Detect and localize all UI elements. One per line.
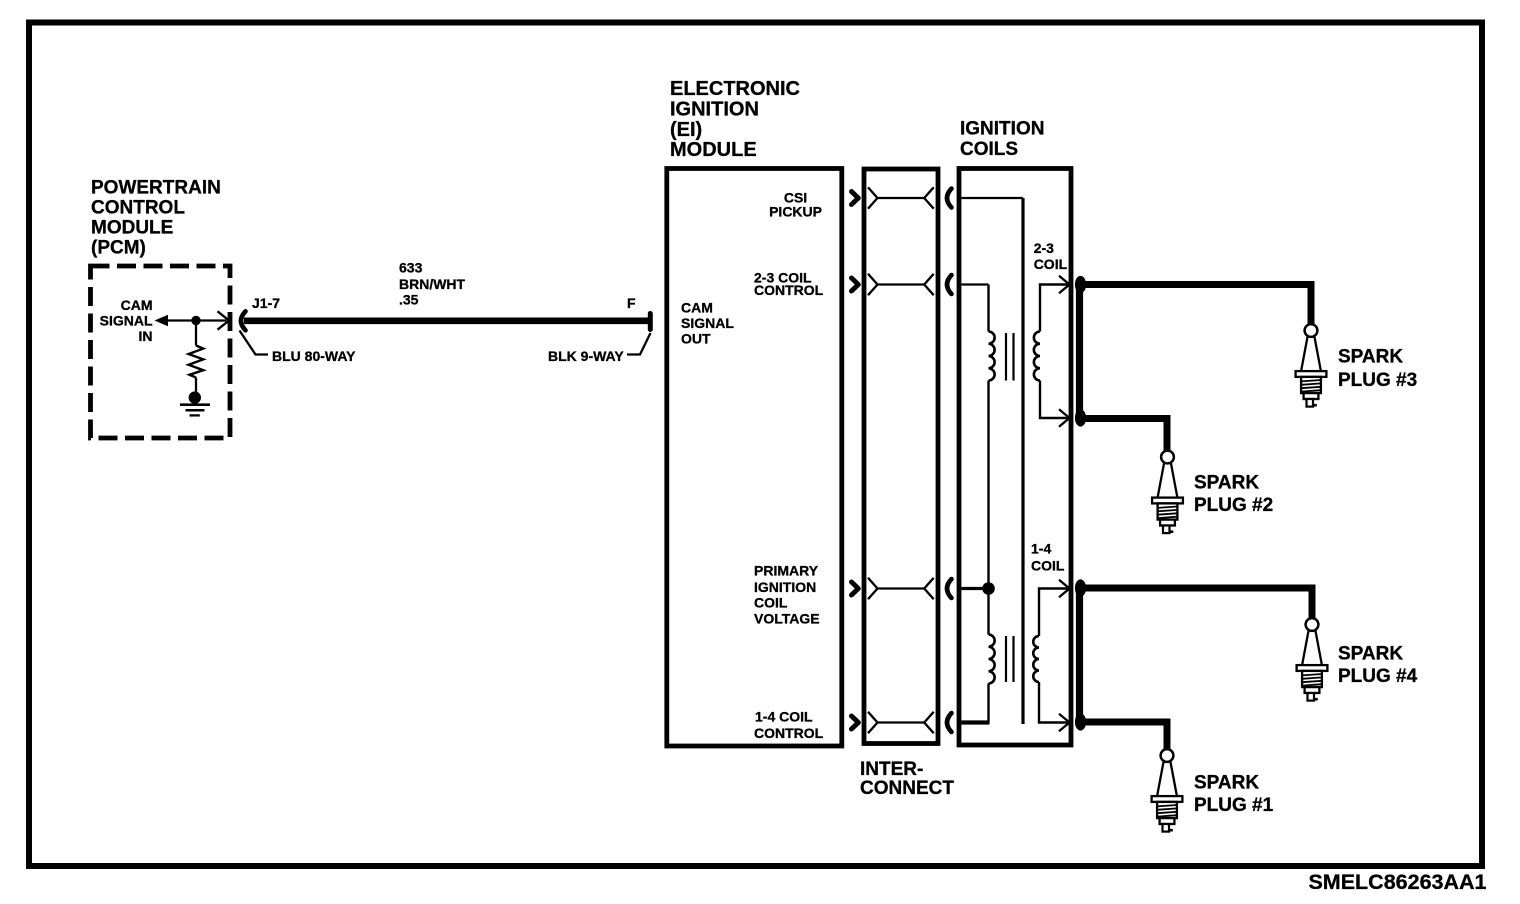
svg-text:(PCM): (PCM) [91,238,146,259]
svg-text:POWERTRAIN: POWERTRAIN [91,178,221,199]
svg-text:ELECTRONIC: ELECTRONIC [670,78,800,100]
svg-text:INTER-: INTER- [860,759,923,780]
svg-text:1-4 COIL: 1-4 COIL [755,709,813,725]
svg-text:CONTROL: CONTROL [91,198,185,219]
svg-text:CAM: CAM [121,297,153,313]
svg-text:J1-7: J1-7 [252,295,280,311]
svg-text:MODULE: MODULE [91,218,173,239]
svg-text:IGNITION: IGNITION [960,119,1044,140]
svg-text:SIGNAL: SIGNAL [100,313,153,329]
svg-text:COIL: COIL [754,595,788,611]
svg-text:COIL: COIL [1034,256,1068,272]
svg-text:IGNITION: IGNITION [670,98,759,120]
svg-text:BLU 80-WAY: BLU 80-WAY [272,348,356,364]
svg-text:PLUG #1: PLUG #1 [1194,795,1274,816]
svg-text:COIL: COIL [1031,558,1065,574]
svg-text:SIGNAL: SIGNAL [681,315,734,331]
svg-text:PICKUP: PICKUP [769,204,822,220]
svg-text:VOLTAGE: VOLTAGE [754,611,820,627]
svg-text:SMELC86263AA1: SMELC86263AA1 [1308,870,1486,894]
svg-text:PRIMARY: PRIMARY [754,563,819,579]
svg-text:2-3: 2-3 [1034,240,1054,256]
svg-text:SPARK: SPARK [1194,773,1259,794]
svg-text:SPARK: SPARK [1338,347,1403,368]
svg-text:CONNECT: CONNECT [860,778,954,799]
svg-text:F: F [627,295,636,311]
svg-text:IGNITION: IGNITION [754,579,816,595]
svg-text:SPARK: SPARK [1194,473,1259,494]
svg-text:OUT: OUT [681,331,711,347]
svg-text:COILS: COILS [960,139,1018,160]
svg-text:MODULE: MODULE [670,139,757,161]
svg-text:633: 633 [399,260,423,276]
svg-text:CAM: CAM [681,300,713,316]
svg-text:CONTROL: CONTROL [754,282,824,298]
svg-text:CONTROL: CONTROL [754,725,824,741]
svg-text:1-4: 1-4 [1031,541,1051,557]
svg-text:BRN/WHT: BRN/WHT [399,276,466,292]
svg-text:(EI): (EI) [670,119,702,141]
svg-text:IN: IN [139,328,153,344]
svg-text:BLK 9-WAY: BLK 9-WAY [548,348,624,364]
svg-text:.35: .35 [399,292,419,308]
svg-text:PLUG #3: PLUG #3 [1338,370,1417,391]
svg-text:SPARK: SPARK [1338,644,1403,665]
svg-text:PLUG #2: PLUG #2 [1194,495,1273,516]
svg-text:PLUG #4: PLUG #4 [1338,666,1418,687]
